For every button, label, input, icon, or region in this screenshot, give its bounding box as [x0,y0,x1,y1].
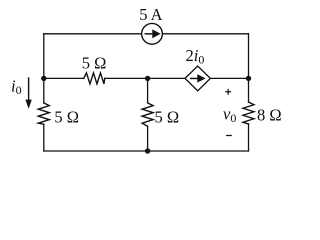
svg-text:5 Ω: 5 Ω [155,107,180,126]
current source 5A circle [142,23,163,44]
junction node right (middle wire / right wire) [246,76,251,81]
label plus sign [225,89,231,95]
wire top-right segment [162,33,248,35]
wire middle horizontal center [105,77,185,79]
wire middle vertical upper stub [147,78,149,103]
svg-text:8 Ω: 8 Ω [257,105,282,124]
label minus sign [226,135,232,137]
junction node bottom (bottom wire / middle branch) [145,148,150,153]
wire right vertical upper [248,34,250,102]
current source 5A arrow [145,29,161,38]
svg-text:5 Ω: 5 Ω [54,107,79,126]
dependent source 2i0 diamond [185,66,210,91]
svg-text:5 Ω: 5 Ω [82,54,107,73]
wire top-left segment [44,33,142,35]
svg-text:5 A: 5 A [139,5,162,24]
wire left vertical lower [43,124,45,151]
resistor middle 5ohm zigzag [142,103,153,126]
wire bottom [44,150,249,152]
wire middle horizontal right [210,77,248,79]
wire middle vertical lower stub [147,126,149,151]
resistor R horizontal 5ohm zigzag [84,73,105,84]
resistor right 8ohm zigzag [243,102,254,124]
wire middle horizontal left [44,77,84,79]
resistor left 5ohm zigzag [38,103,49,124]
wire right vertical lower [248,124,250,151]
dependent source 2i0 arrow [190,74,206,82]
wire left vertical upper [43,34,45,103]
junction node left (middle wire / left wire) [41,76,46,81]
junction node middle (middle wire / middle branch) [145,76,150,81]
i0 current arrow [25,77,31,109]
